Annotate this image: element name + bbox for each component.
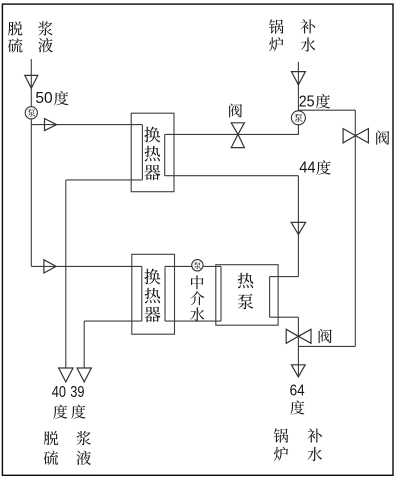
wire: right riser x=355.3 xyxy=(354,110,356,346)
label 锅炉 (top-right) xyxy=(269,19,284,51)
wire: bottom of right riser to outlet line xyxy=(298,345,355,347)
label 阀 (right valve) xyxy=(376,130,389,144)
flow arrow right (into HX1) xyxy=(45,119,57,131)
label 40 (outlet temp) xyxy=(52,384,67,401)
wire: HX1 lower-left port y=180.2 xyxy=(66,179,143,181)
wire: top branch y=110.2 to right riser xyxy=(298,109,355,111)
wire: HX1 left channel connector xyxy=(141,125,143,180)
label 热泵 xyxy=(238,273,254,310)
pump P2 (25度 line) xyxy=(291,111,305,125)
wire: HX2 right channel connector xyxy=(164,266,166,321)
label 中介水 (intermediate water) xyxy=(190,276,204,322)
wire: HX2 left channel connector xyxy=(141,266,143,321)
flow arrow right (into HX2) xyxy=(44,260,56,273)
label 阀 (top valve) xyxy=(229,103,242,117)
flow arrow down (64度 outlet) xyxy=(291,365,305,377)
wire: slurry inlet vertical x=31.3 xyxy=(30,59,32,266)
label 浆液 (top-left) xyxy=(38,21,53,52)
flow arrow down (44度 line) xyxy=(291,222,305,234)
wire: return line x=84.2 down to 39度 outlet xyxy=(83,321,85,368)
wire: boiler water inlet vertical x=298.4 xyxy=(297,62,299,135)
wire: HX2 lower-left port y=321 xyxy=(84,320,142,322)
wire: heat pump left channel connector xyxy=(220,266,222,321)
label 换热器 (HX1) xyxy=(144,127,160,181)
svg-text:40: 40 xyxy=(52,384,67,401)
label 度 (under 64) xyxy=(290,400,304,414)
flow arrow down (slurry inlet) xyxy=(25,75,38,88)
pump P1 (50度 line) xyxy=(25,107,37,119)
heat exchanger HX1 box xyxy=(131,113,174,192)
valve V1 (top, on y=135 line) xyxy=(231,123,244,148)
label 换热器 (HX2) xyxy=(144,269,160,323)
wire: HX1 upper-right line y=135 to pump P2 xyxy=(165,133,299,135)
label 锅炉 (bottom outlet) xyxy=(274,428,289,461)
flow arrow down (39度 outlet) xyxy=(77,368,91,382)
label 度 (under 40) xyxy=(53,404,67,418)
label 39 (outlet temp) xyxy=(70,384,84,401)
svg-text:50: 50 xyxy=(35,90,53,107)
svg-text:39: 39 xyxy=(70,384,84,401)
wire: outlet line x=298.4 through valve V3 to 64度 xyxy=(297,317,299,377)
label 25度 xyxy=(299,93,330,110)
heat pump box 热泵 xyxy=(216,265,278,326)
flow arrow down (40度 outlet) xyxy=(59,368,73,382)
wire: HX1 right channel connector xyxy=(164,134,166,175)
wire: branch to HX1 upper-left port y=124.6 xyxy=(31,124,142,126)
valve V3 (64度 outlet) xyxy=(286,329,311,343)
label 64 (outlet temp) xyxy=(290,382,305,399)
svg-text:44: 44 xyxy=(299,159,316,176)
flow arrow down (boiler water inlet) xyxy=(291,72,305,85)
label 度 (under 39) xyxy=(71,404,85,418)
label 阀 (bottom valve) xyxy=(319,329,332,343)
wire: 44度 drop x=298.4 down to heat pump upper port xyxy=(297,176,299,277)
heat exchanger HX2 box xyxy=(132,254,175,334)
label 补水 (bottom outlet) xyxy=(307,428,322,461)
wire: intermediate loop feed y=266 from pump line to HX2 xyxy=(31,265,142,267)
label 50度 xyxy=(35,90,68,107)
label 44度 xyxy=(299,159,331,176)
wire: intermediate water upper line y=266 HX2 to heat pump xyxy=(165,265,221,267)
wire: intermediate water lower line y=321 xyxy=(165,320,221,322)
wire: heat pump lower-right port y=317.2 xyxy=(270,316,299,318)
label 浆液 (bottom outlet) xyxy=(76,431,91,465)
svg-text:25: 25 xyxy=(299,93,315,110)
wire: heat pump right channel connector xyxy=(269,277,271,318)
label 脱硫 (top-left) xyxy=(8,21,23,52)
svg-text:64: 64 xyxy=(290,382,305,399)
label 补水 (top-right) xyxy=(301,19,316,51)
label 脱硫 (bottom outlet) xyxy=(44,431,59,465)
pump P3 (intermediate water) xyxy=(192,260,203,271)
wire: heat pump upper-right port y=276.6 xyxy=(270,276,299,278)
wire: return line x=65.8 down to 40度 outlet xyxy=(65,180,67,368)
wire: HX1 lower-right 44度 line y=175 xyxy=(165,175,299,177)
valve V2 (right riser) xyxy=(343,129,368,143)
